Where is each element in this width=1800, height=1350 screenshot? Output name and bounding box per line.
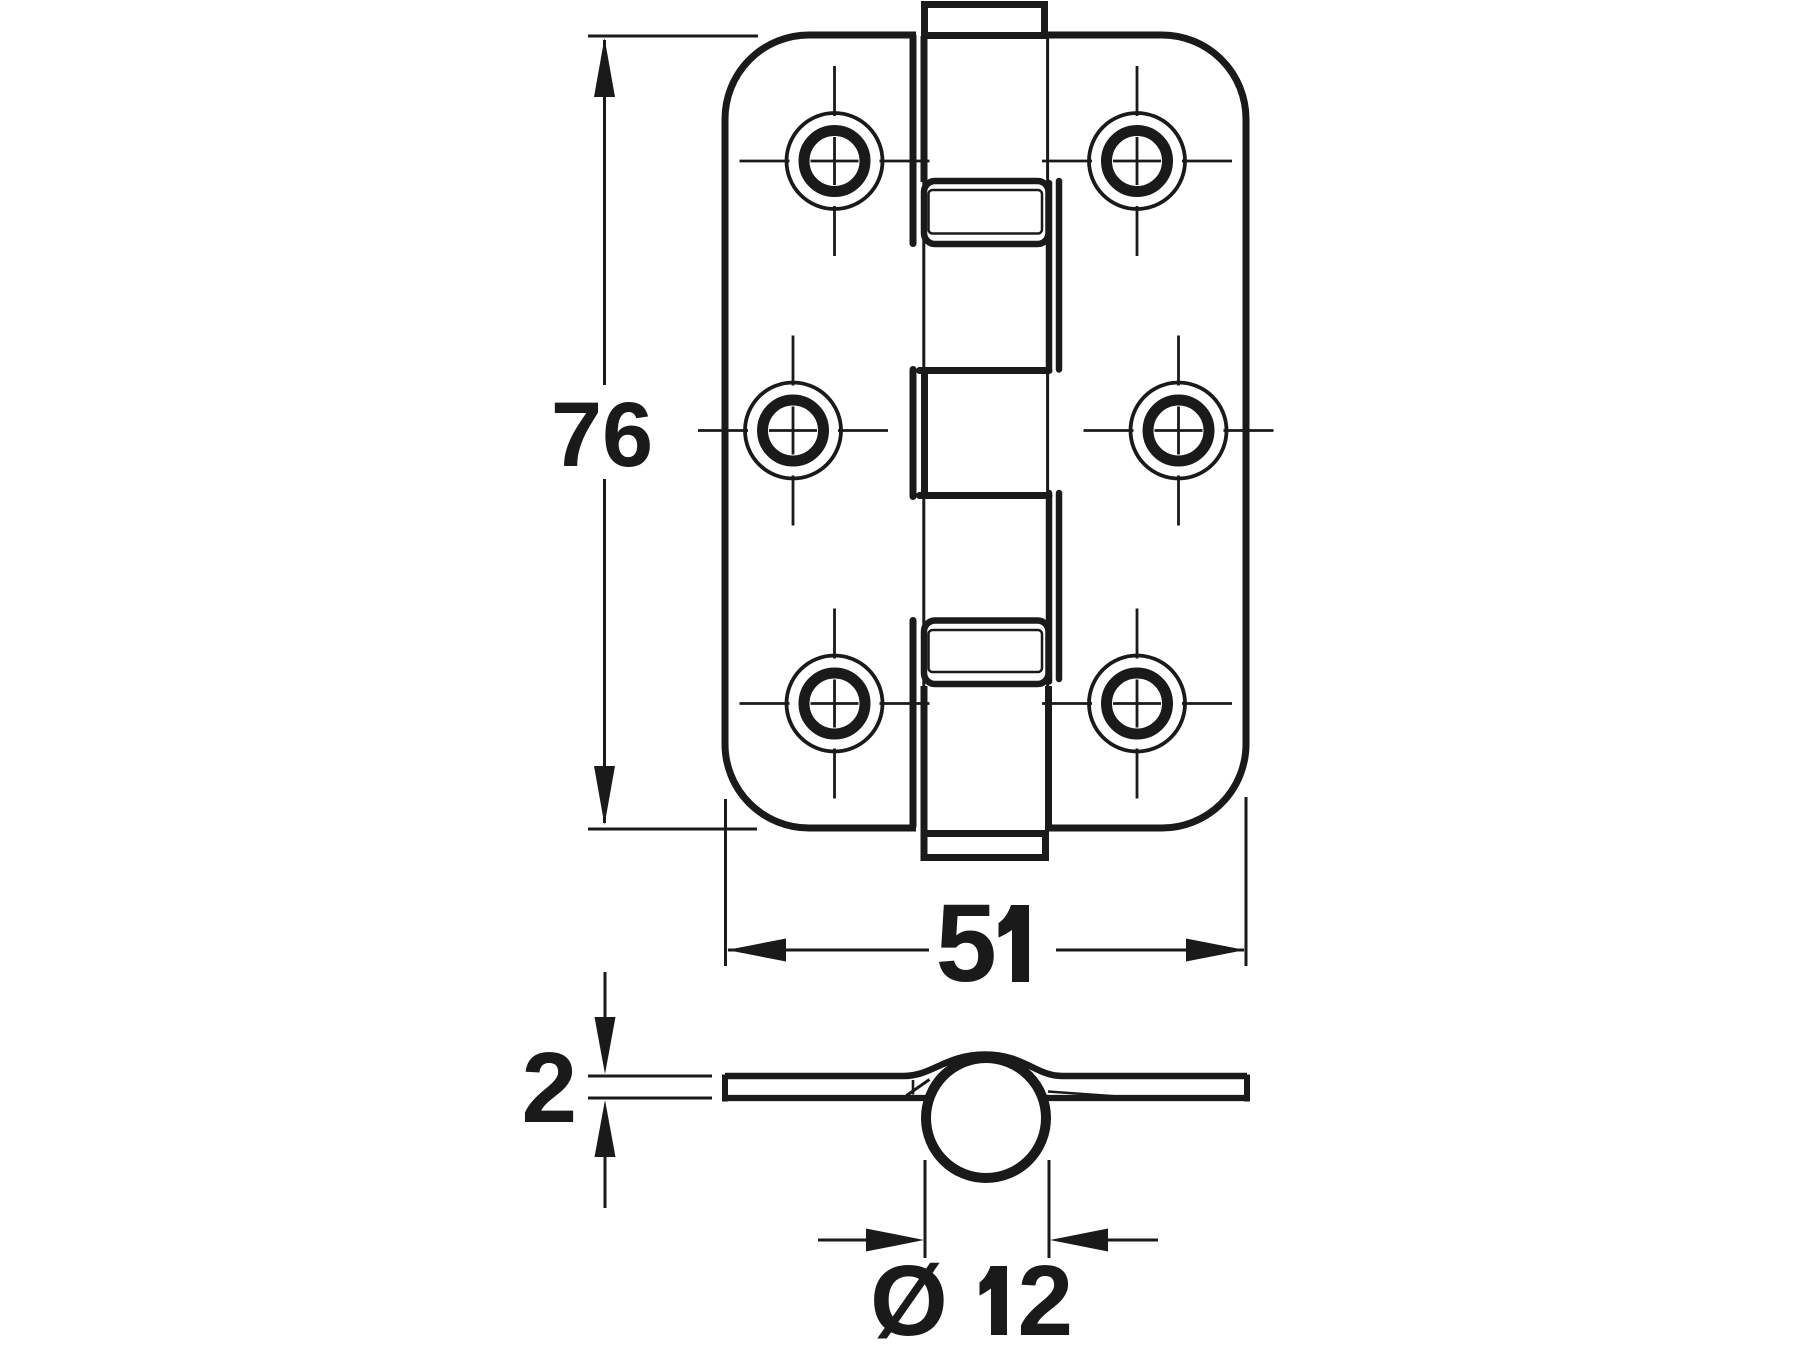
- dimension 12 extension line left: [924, 1160, 927, 1258]
- dimension 76 extension line top: [588, 35, 758, 38]
- left leaf cutout edge middle: [910, 370, 917, 497]
- dimension 12 arrow left: [866, 1229, 924, 1252]
- screw hole bottom-left: [740, 609, 930, 799]
- side view right end cap: [1244, 1075, 1250, 1102]
- bearing washer 2 outer: [924, 621, 1049, 685]
- bearing washer 1 inner: [929, 190, 1043, 234]
- middle knuckle bottom edge: [920, 492, 1050, 499]
- bottom knuckle right edge thick: [1045, 686, 1052, 830]
- screw hole middle-left: [698, 336, 888, 526]
- side view left leaf bottom line: [725, 1095, 927, 1101]
- dimension 51 line left segment: [728, 949, 929, 952]
- dimension 2 extension line bottom: [588, 1097, 712, 1100]
- dimension 51 arrow left: [727, 939, 786, 962]
- dimension 51 extension line left: [724, 799, 727, 966]
- dimension 76 extension line bottom: [588, 828, 757, 831]
- dimension 12 extension line right: [1048, 1160, 1051, 1258]
- side view left leaf end notch vertical: [912, 1080, 915, 1095]
- dimension 51 extension line right: [1245, 797, 1248, 966]
- left leaf cutout edge upper: [910, 36, 917, 244]
- dimension 2 extension line top: [588, 1075, 712, 1078]
- dimension 2 upper arrow line: [604, 972, 607, 1018]
- right leaf cutout outer edge upper: [1056, 181, 1063, 370]
- side view left leaf end notch diagonal: [907, 1080, 930, 1096]
- dimension 76 arrow down: [594, 766, 615, 825]
- dimension 51 arrow right: [1186, 939, 1245, 962]
- dimension 12 line right segment: [1107, 1239, 1158, 1242]
- middle knuckle left edge: [921, 372, 928, 494]
- dimension 76 arrow up: [594, 38, 615, 97]
- bottom knuckle left edge thick: [921, 686, 928, 830]
- left leaf cutout edge lower: [910, 621, 917, 827]
- svg-text:5: 5: [936, 882, 997, 1005]
- dimension 2 lower arrow head: [595, 1100, 616, 1157]
- dimension 12 line left segment: [818, 1239, 868, 1242]
- right leaf cutout inner edge upper: [1046, 183, 1053, 370]
- dimension 76 line lower segment: [603, 479, 606, 823]
- dimension 2 upper arrow head: [595, 1017, 616, 1074]
- svg-text:2: 2: [522, 1032, 578, 1144]
- svg-text:2: 2: [1018, 1245, 1074, 1350]
- side view right leaf taper line: [1048, 1092, 1118, 1097]
- hinge leaf plate outline (front view, rounded rect with gaps for pin caps): [725, 35, 1246, 828]
- screw hole top-left: [740, 66, 930, 256]
- side view top contour with hump: [725, 1055, 1247, 1077]
- knuckle column thin vertical right: [1046, 38, 1049, 827]
- dimension 12 arrow right: [1050, 1229, 1108, 1252]
- dimension 2 lower arrow line: [604, 1156, 607, 1208]
- dimension 76 line upper segment: [603, 40, 606, 385]
- middle knuckle top edge: [920, 367, 1050, 374]
- side view left end cap: [722, 1075, 728, 1102]
- screw hole bottom-right: [1042, 609, 1232, 799]
- side view right leaf bottom line: [1046, 1095, 1247, 1101]
- pin cap bottom: [924, 834, 1046, 858]
- bearing washer 1 outer: [924, 181, 1049, 244]
- pin cap top: [925, 5, 1045, 36]
- bearing washer 2 inner: [929, 630, 1043, 672]
- knuckle column thin vertical left: [922, 38, 925, 827]
- barrel circle: [926, 1058, 1046, 1178]
- right leaf cutout outer edge lower: [1056, 493, 1063, 679]
- dimension 51 line right segment: [1056, 949, 1244, 952]
- screw hole middle-right: [1084, 336, 1274, 526]
- right leaf cutout inner edge lower: [1046, 493, 1053, 682]
- screw hole top-right: [1042, 66, 1232, 256]
- top knuckle left edge thick: [921, 36, 928, 182]
- svg-text:Ø: Ø: [870, 1245, 948, 1350]
- svg-text:76: 76: [551, 384, 653, 486]
